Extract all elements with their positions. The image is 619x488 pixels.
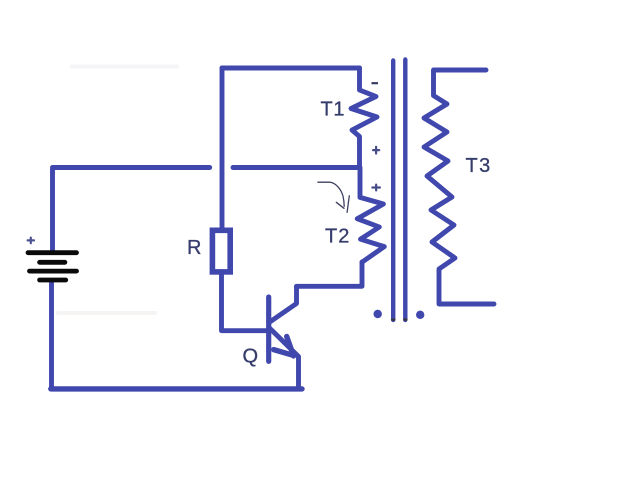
svg-text:T3: T3: [466, 155, 492, 177]
phasing dot left: [374, 310, 382, 318]
wire battery negative lead vertical: [49, 282, 54, 389]
svg-text:T1: T1: [321, 98, 346, 120]
svg-text:R: R: [187, 237, 201, 259]
phasing dot right: [416, 311, 424, 319]
curved arrow (current direction into T2): [318, 182, 349, 212]
label + (battery positive): [28, 238, 34, 244]
transistor Q emitter lead: [270, 329, 299, 389]
core line bottom tips: [391, 318, 396, 321]
wire collector horizontal to T2 bottom: [297, 262, 363, 286]
label - (T1 top polarity): [372, 82, 379, 84]
wire top horizontal from node above R to T1 top: [222, 66, 360, 71]
transistor Q collector lead: [271, 287, 297, 322]
winding T3 (secondary): [424, 70, 494, 304]
winding T2 (transformer primary lower): [357, 168, 384, 263]
wire battery positive lead vertical: [50, 168, 55, 251]
svg-text:Q: Q: [243, 345, 259, 367]
wire vertical from top wire down to resistor R top: [220, 68, 225, 230]
resistor R body: [212, 230, 230, 272]
label + (T1 bottom polarity): [373, 147, 379, 154]
label + (T2 top polarity): [372, 185, 380, 191]
winding T1 (transformer primary upper): [351, 68, 377, 168]
transistor Q base bar: [266, 297, 271, 361]
transformer core line left: [391, 61, 395, 321]
wire middle horizontal left segment (battery + to crossover gap): [53, 165, 210, 170]
wire bottom horizontal (battery - to emitter): [51, 386, 302, 391]
wire from resistor bottom to transistor base: [222, 273, 267, 331]
transistor Q emitter arrow: [274, 350, 293, 356]
faint erased stroke top-left: [72, 65, 177, 69]
wire middle horizontal right segment (crossover gap to T2 top node): [233, 165, 358, 170]
svg-text:T2: T2: [325, 225, 350, 247]
battery B1 plates: [28, 253, 77, 280]
transformer core line right: [403, 60, 407, 321]
faint erased stroke above battery bottom: [58, 311, 155, 315]
